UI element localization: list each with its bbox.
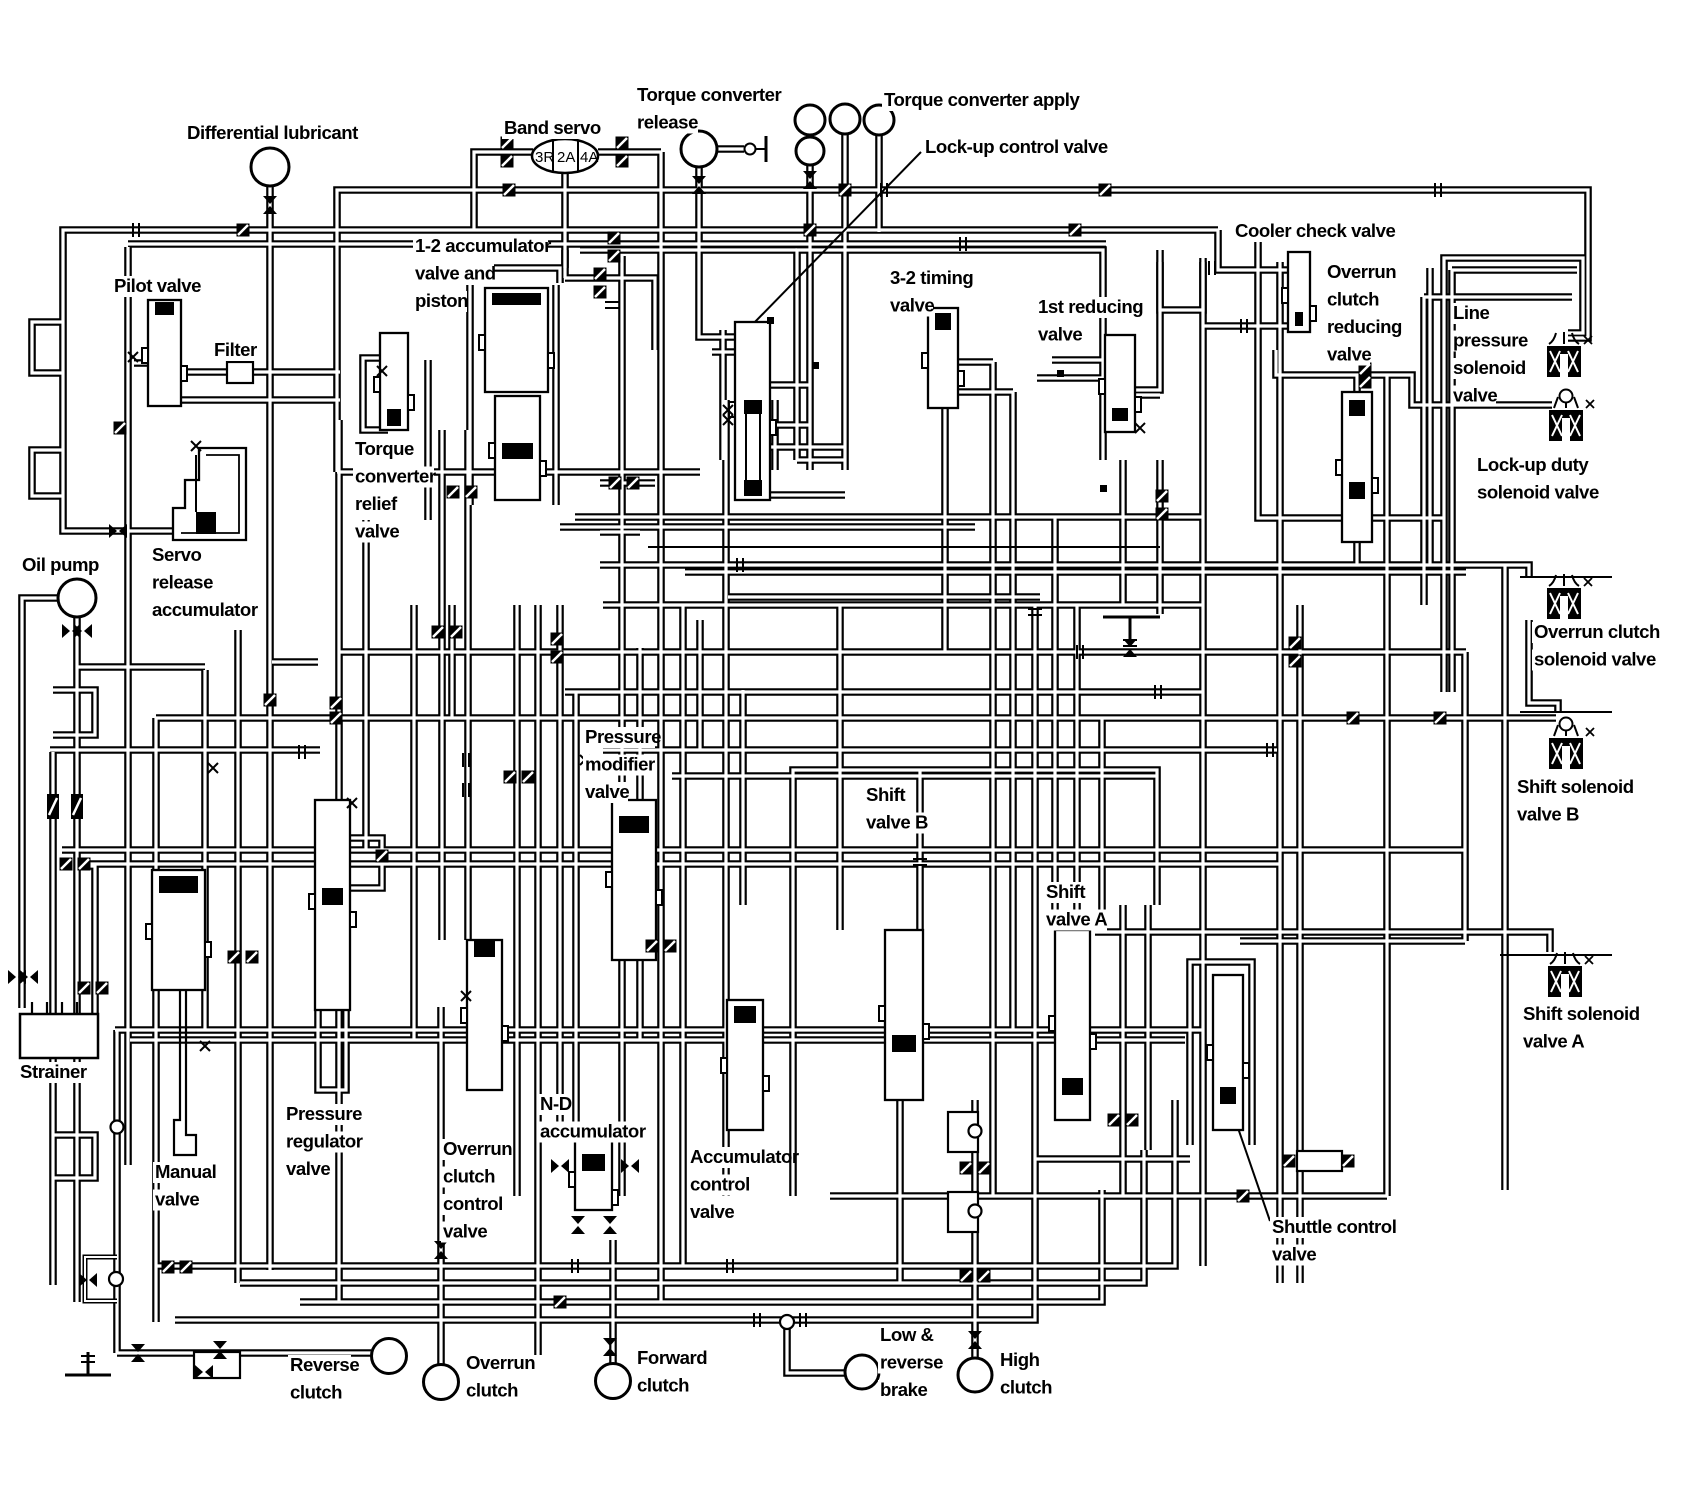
bowtie nd left [551, 1159, 569, 1173]
reverse clutch port [372, 1339, 407, 1374]
tick a5 [754, 1313, 760, 1327]
svg-text:brake: brake [880, 1379, 927, 1400]
orifice y718 [1347, 712, 1360, 725]
torque converter apply port 1b [796, 137, 824, 165]
check box 2 [948, 1192, 982, 1232]
wire y297 nest [1424, 293, 1572, 301]
svg-text:Lock-up control valve: Lock-up control valve [925, 136, 1108, 157]
svg-text:Servo: Servo [152, 544, 202, 565]
wire x1452 vertical [1448, 270, 1456, 692]
wire x1465 vertical [1461, 652, 1469, 941]
wire band servo left [474, 152, 533, 230]
wire x366 vertical [362, 520, 370, 850]
shift solenoid valve B [1549, 718, 1594, 770]
wire x1424 vertical [1420, 297, 1428, 605]
svg-text:valve: valve [1272, 1244, 1316, 1265]
wire port loop 2 [32, 450, 63, 496]
svg-text:valve: valve [155, 1189, 199, 1210]
bowtie oil pump b [74, 624, 92, 638]
wire pilot bottom out [181, 396, 340, 404]
wire forward clutch stem [609, 1240, 617, 1364]
wire tc release stem [699, 167, 735, 337]
lock-up control piston [744, 400, 762, 496]
wire cooler check feed [1218, 230, 1288, 270]
junction dot 4 [1100, 485, 1107, 492]
orifice y1196 [1237, 1190, 1250, 1203]
orifice x462 [447, 486, 460, 499]
svg-text:Oil pump: Oil pump [22, 554, 99, 575]
wire y250 west [580, 246, 797, 254]
orifice y1266 [162, 1261, 175, 1274]
wire shift valve B frame [793, 770, 1157, 1196]
junction dot 3 [1057, 370, 1064, 377]
tick a12 [605, 302, 619, 308]
thin y547 [648, 546, 1160, 548]
x lockup b [723, 415, 733, 425]
svg-text:accumulator: accumulator [540, 1121, 646, 1142]
wire 1st reducing feed [1037, 374, 1105, 382]
label pressure modifier valve [583, 726, 661, 803]
wire x1077 vertical [1073, 605, 1081, 930]
x overrun control [461, 991, 471, 1001]
wire band servo bracket link [561, 250, 569, 268]
wire 3-2 frame [797, 250, 1103, 460]
wire x272 elbow [272, 658, 318, 666]
orifice y850 b [78, 858, 91, 871]
wire x576 vertical [572, 692, 580, 1140]
check ball bowtie [79, 1273, 97, 1287]
torque converter apply port 2 [830, 104, 860, 134]
wire x428 vertical [424, 360, 432, 520]
wire overrun clutch out [437, 1007, 445, 1364]
wire differential lubricant stem [266, 186, 274, 1270]
svg-text:control: control [690, 1174, 750, 1195]
svg-text:Shuttle control: Shuttle control [1272, 1216, 1396, 1237]
tick a1 [463, 753, 469, 767]
orifice x238 b [246, 951, 259, 964]
tick a17 [881, 183, 887, 197]
wire y532 stub [600, 528, 640, 536]
wire x560 vertical [556, 605, 564, 1140]
servo release accumulator [173, 448, 246, 540]
wire 3-2 right port [958, 388, 1013, 396]
svg-text:valve and: valve and [415, 263, 496, 284]
wire x414 vertical [410, 605, 418, 1040]
label shift valve A [1044, 881, 1107, 931]
pressure modifier valve [606, 800, 662, 960]
band servo [532, 139, 598, 173]
label reverse clutch [288, 1354, 359, 1404]
exhaust port top [1103, 617, 1160, 646]
svg-text:valve: valve [355, 521, 399, 542]
svg-text:clutch: clutch [1000, 1377, 1052, 1398]
orifice y247 pair b [608, 250, 621, 263]
wire y1266 trunk [155, 1100, 1175, 1266]
wire y597 run [728, 593, 1040, 601]
manual valve [146, 870, 211, 990]
wire x840 vertical [836, 605, 844, 930]
svg-text:valve: valve [1453, 385, 1497, 406]
reverse check assembly [194, 1352, 240, 1378]
torque converter release port [681, 131, 717, 167]
tick a14 [299, 745, 305, 759]
tick a9 [913, 859, 927, 865]
bowtie high clutch [968, 1331, 982, 1349]
overrun clutch port [424, 1365, 459, 1400]
svg-text:4A: 4A [580, 149, 598, 166]
orifice y1266 b [180, 1261, 193, 1274]
bowtie y531 [109, 524, 127, 538]
label servo release accumulator [150, 544, 258, 621]
wire overrun reducing bottom [1353, 542, 1361, 565]
shuttle control valve [1207, 975, 1249, 1130]
svg-text:Manual: Manual [155, 1161, 216, 1182]
shift valve B [879, 930, 929, 1100]
wire x1160 exhaust [1156, 460, 1164, 614]
orifice x975b [960, 1162, 973, 1175]
orifice x95 b [96, 982, 109, 995]
orifice bs right b [616, 155, 629, 168]
bowtie forward b [603, 1216, 617, 1234]
label lock-up control valve [923, 136, 1112, 158]
wire 12acc frame R [552, 285, 560, 505]
lock-up duty solenoid valve [1549, 390, 1594, 442]
svg-text:Shift: Shift [866, 784, 905, 805]
wire shuttle frame [1190, 962, 1252, 1145]
svg-text:Cooler check valve: Cooler check valve [1235, 220, 1395, 241]
wire x1123 up [1119, 460, 1127, 605]
wire x238 vertical [234, 630, 242, 1283]
wire relief bracket [363, 358, 388, 430]
wire right nest outer [1444, 258, 1583, 692]
label accumulator control valve [688, 1146, 799, 1223]
inline check x77 [71, 794, 83, 819]
wire y670 left [77, 663, 205, 671]
wire cooler bottom out [1276, 350, 1337, 375]
tick a20 [133, 223, 139, 237]
lock-up control valve [729, 322, 776, 500]
manual valve stem [174, 990, 196, 1155]
wire lockup left port2 [712, 348, 735, 356]
orifice reg loop [376, 850, 389, 863]
inline check x53 [47, 794, 59, 819]
wire x993 vertical [989, 362, 997, 1196]
wire x661 vertical [657, 152, 665, 1302]
shift solenoid valve A [1548, 952, 1593, 997]
wire reverse clutch line [117, 1349, 371, 1357]
svg-text:clutch: clutch [637, 1375, 689, 1396]
svg-text:pressure: pressure [1453, 330, 1528, 351]
svg-text:Overrun: Overrun [443, 1138, 512, 1159]
wire x1148 vertical [1144, 905, 1152, 1150]
orifice y850 [60, 858, 73, 871]
bowtie oil pump [62, 624, 80, 638]
oil pump port [58, 579, 96, 617]
wire 3-2 left port [958, 358, 993, 366]
3-2 timing valve [922, 308, 964, 408]
label torque converter relief valve [353, 438, 436, 543]
svg-text:Filter: Filter [214, 339, 257, 360]
overrun clutch solenoid valve [1547, 574, 1592, 619]
wire regulator right loop [350, 838, 382, 888]
overrun clutch control valve [461, 940, 508, 1090]
orifice x1160 b [1156, 508, 1169, 521]
wire x900 vertical [896, 1100, 904, 1283]
orifice x661 b [664, 940, 677, 953]
orifice apply2 [839, 184, 852, 197]
orifice y278 pair [594, 268, 607, 281]
bowtie x22 b [20, 970, 38, 984]
label torque converter apply [882, 89, 1080, 111]
svg-text:valve: valve [890, 295, 934, 316]
label differential lubricant [185, 122, 383, 144]
tick a16 [1241, 319, 1247, 333]
svg-text:clutch: clutch [1327, 289, 1379, 310]
strainer [20, 1002, 98, 1058]
svg-text:valve: valve [690, 1201, 734, 1222]
1-2 accumulator valve [489, 396, 546, 500]
1st reducing valve [1099, 335, 1141, 432]
wire x723 vertical [719, 330, 727, 460]
reverse check bowtie 2 [195, 1365, 213, 1379]
tick a4 [727, 1259, 733, 1273]
bowtie reverse line [131, 1344, 145, 1362]
wire left vertical x53 [49, 752, 57, 1285]
svg-text:Shift solenoid: Shift solenoid [1517, 776, 1634, 797]
wire tc apply stem 3 [875, 135, 883, 232]
tick a15 [1209, 261, 1215, 275]
wire x683 vertical [679, 605, 687, 1266]
wire overrun reducing stem [1353, 375, 1361, 392]
bowtie forward [603, 1338, 617, 1356]
svg-text:reverse: reverse [880, 1352, 943, 1373]
wire trunk y247 [128, 240, 1106, 248]
label overrun clutch reducing valve [1325, 261, 1402, 366]
wire y565 run [600, 565, 1529, 577]
svg-text:Strainer: Strainer [20, 1061, 87, 1082]
wire y750 run [50, 746, 320, 754]
tick a19 [960, 237, 966, 251]
svg-text:3-2 timing: 3-2 timing [890, 267, 973, 288]
leader shuttle control valve [1238, 1128, 1270, 1221]
orifice y1302 [554, 1296, 567, 1309]
orifice trunk230 [1069, 224, 1082, 237]
wire y517 run [575, 513, 1203, 521]
label 3-2 timing valve [888, 267, 978, 317]
high clutch port [958, 1358, 992, 1392]
svg-text:Overrun: Overrun [466, 1352, 535, 1373]
orifice x513 [504, 771, 517, 784]
svg-text:reducing: reducing [1327, 316, 1402, 337]
bowtie overrun out [434, 1241, 448, 1259]
orifice y483 [609, 477, 622, 490]
label high clutch [998, 1349, 1052, 1399]
wire x517 vertical [513, 605, 521, 1196]
svg-text:clutch: clutch [290, 1382, 342, 1403]
x regulator [347, 798, 357, 808]
leader lock-up control valve [752, 152, 921, 325]
check box 1 [948, 1112, 982, 1152]
wire y750 run b [603, 746, 1277, 754]
svg-text:relief: relief [355, 493, 398, 514]
orifice x975b b [978, 1162, 991, 1175]
wire x468 vertical [464, 430, 472, 940]
orifice trunk230 b [237, 224, 250, 237]
svg-text:valve B: valve B [866, 812, 928, 833]
svg-text:Torque converter apply: Torque converter apply [884, 89, 1080, 110]
wire second border [63, 230, 1218, 531]
wire lockup lower link2 [770, 491, 845, 499]
svg-text:1-2 accumulator: 1-2 accumulator [415, 235, 551, 256]
torque converter apply port 3 [864, 105, 894, 135]
svg-text:Pilot valve: Pilot valve [114, 275, 201, 296]
wire y460 link [797, 456, 845, 464]
orifice bs left [501, 137, 514, 150]
wire overrun reducing line [1337, 375, 1552, 405]
svg-text:Band servo: Band servo [504, 117, 601, 138]
bowtie exhaust top [1123, 639, 1137, 657]
label overrun clutch control valve [441, 1138, 512, 1243]
pressure regulator valve [309, 800, 356, 1010]
svg-text:Forward: Forward [637, 1347, 707, 1368]
wire oil pump stem [73, 616, 81, 1302]
svg-text:solenoid valve: solenoid valve [1534, 649, 1656, 670]
wire 12acc frame L [466, 285, 474, 505]
bowtie tc apply 1 [803, 171, 817, 189]
wire x1529 link [1529, 620, 1558, 712]
svg-text:release: release [152, 572, 213, 593]
1-2 accumulator piston [479, 288, 554, 392]
wire y1196 trunk [830, 1192, 1387, 1200]
svg-text:clutch: clutch [466, 1380, 518, 1401]
wire x1035 vertical [1031, 605, 1039, 1210]
wire x128 vertical [124, 247, 132, 1165]
svg-text:modifier: modifier [585, 754, 655, 775]
shuttle damper orifice L [1283, 1155, 1296, 1168]
torque converter apply port 1 [795, 105, 825, 135]
x relief [377, 366, 387, 376]
wire high clutch stem [971, 1100, 979, 1358]
wire x775 up [771, 400, 779, 470]
svg-text:valve A: valve A [1523, 1031, 1584, 1052]
orifice x336b [330, 712, 343, 725]
wire x1300 vertical [1296, 605, 1304, 1283]
wire x1203 vertical [1199, 258, 1207, 1266]
wire tc apply stem 2 [841, 134, 849, 470]
bowtie diff stem [263, 196, 277, 214]
low reverse brake port [845, 1355, 879, 1389]
svg-text:Pressure: Pressure [286, 1103, 362, 1124]
tick a10 [1155, 685, 1161, 699]
wire x205 vertical [201, 670, 209, 1030]
wire y864 trunk [90, 860, 1280, 868]
label pressure regulator valve [284, 1103, 365, 1180]
wire x1390 vertical [1383, 375, 1391, 1196]
svg-text:valve: valve [585, 781, 629, 802]
label low and reverse brake [878, 1324, 943, 1401]
wire x538 vertical [534, 605, 542, 1355]
tick a7 [1077, 645, 1083, 659]
bowtie x22 a [8, 970, 26, 984]
differential lubricant port [251, 148, 289, 186]
orifice x238 [228, 951, 241, 964]
wire x1280 vertical [1276, 262, 1284, 1283]
wire lockup lower link [745, 421, 810, 429]
wire y941 trunk [1240, 937, 1465, 945]
wire y472 run [337, 468, 700, 476]
orifice x661 [646, 940, 659, 953]
label overrun clutch [464, 1352, 535, 1402]
wire y1283 trunk [240, 1150, 1144, 1283]
wire y395 link [1106, 391, 1160, 399]
label 1st reducing valve [1036, 296, 1144, 346]
wire 12acc bracket [478, 268, 560, 283]
wire x726 vertical [722, 400, 730, 1196]
wire x1505 vertical [1501, 565, 1509, 1190]
svg-text:clutch: clutch [443, 1166, 495, 1187]
wire x945 vertical [941, 395, 949, 652]
svg-text:Torque converter: Torque converter [637, 84, 782, 105]
overrun sol plate [1520, 576, 1612, 578]
low reverse check ball [780, 1315, 794, 1329]
orifice apply1 [804, 224, 817, 237]
wire cooler left box [1160, 262, 1203, 310]
label shift solenoid valve A [1521, 1003, 1647, 1053]
check ball circuit [85, 1257, 123, 1301]
label 1-2 accumulator [413, 235, 551, 312]
label overrun clutch solenoid valve [1532, 621, 1660, 671]
x 1st reducing [1135, 423, 1145, 433]
label line pressure solenoid valve [1451, 302, 1528, 407]
tick a6 [800, 1313, 806, 1327]
wire x1055 vertical [1051, 517, 1059, 930]
orifice bs right [616, 137, 629, 150]
orifice x513 b [522, 771, 535, 784]
orifice x462 b [465, 486, 478, 499]
svg-text:valve: valve [443, 1221, 487, 1242]
reverse check bowtie 1 [213, 1341, 227, 1359]
wire cooler check out [1203, 322, 1288, 330]
orifice x442 [432, 626, 445, 639]
svg-text:3R: 3R [535, 149, 554, 166]
wire y572 run [685, 568, 1466, 576]
wire y652 run [339, 648, 1466, 656]
label cooler check valve [1233, 220, 1395, 242]
orifice x1123b b [1126, 1114, 1139, 1127]
junction dot 1 [767, 317, 774, 324]
bowtie tc release [692, 176, 706, 194]
tc release piston [745, 136, 767, 162]
label forward clutch [635, 1347, 707, 1397]
wire x156 vertical [152, 718, 160, 1322]
wire x640 vertical [636, 648, 644, 1040]
label oil pump [20, 554, 99, 576]
wire y776 run [672, 772, 1157, 780]
bowtie nd right [621, 1159, 639, 1173]
label shuttle control valve [1270, 1216, 1405, 1266]
svg-text:Shift solenoid: Shift solenoid [1523, 1003, 1640, 1024]
orifice top border [503, 184, 516, 197]
svg-text:2A: 2A [557, 149, 575, 166]
accumulator control valve [721, 1000, 769, 1130]
orifice x1123b [1108, 1114, 1121, 1127]
svg-text:Overrun clutch: Overrun clutch [1534, 621, 1660, 642]
pilot valve [142, 300, 187, 406]
orifice y652r b [1289, 655, 1302, 668]
svg-text:Low &: Low & [880, 1324, 934, 1345]
wire 12acc right box [565, 278, 655, 350]
wire y605 run [603, 601, 1203, 609]
